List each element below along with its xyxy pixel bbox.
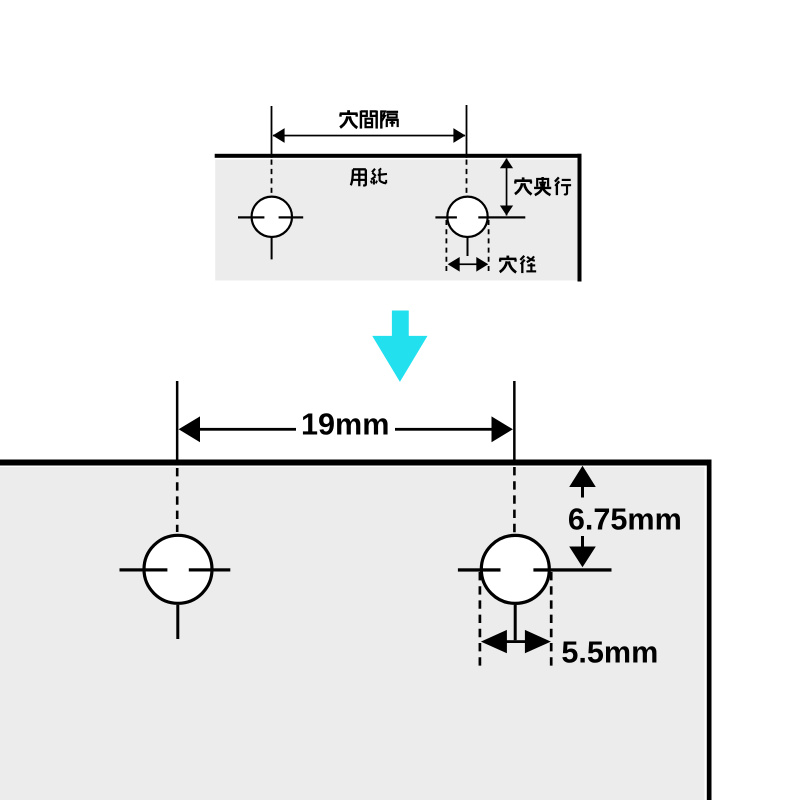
bottom diagram: paper right edge line (707, 460, 712, 800)
top diagram: paper sheet fill (215, 160, 577, 281)
top left hole: crosshair right arm (279, 216, 304, 218)
hole-depth bottom arrowhead (500, 206, 513, 216)
hole-diameter right arrowhead (476, 257, 488, 272)
label: ana-kei (hole diameter) (499, 256, 536, 274)
top diagram: hole-pitch left arrowhead (273, 128, 285, 143)
top right hole: center dashed line above (466, 160, 468, 197)
6.75mm top arrowhead (569, 466, 596, 487)
top right hole: center line below (467, 237, 469, 256)
top left hole: center line below (271, 237, 273, 259)
hole-depth top arrowhead (500, 158, 513, 168)
bottom right hole: right side dashed line (550, 572, 553, 666)
6.75mm bottom arrowhead (569, 547, 596, 568)
bottom left hole: center line below (176, 605, 179, 639)
bottom left hole: center dashed line above (176, 468, 179, 532)
top right hole: crosshair right arm (478, 216, 525, 218)
top diagram: hole-pitch dimension shaft (273, 135, 465, 137)
cyan zoom arrow (372, 311, 427, 382)
hole-diameter left arrowhead (448, 257, 460, 272)
svg-text:19mm: 19mm (301, 408, 389, 442)
label: ana-kankaku (hole spacing) (340, 110, 398, 128)
6.75mm dimension line upper segment (581, 487, 584, 498)
6.75mm dimension line lower segment (581, 536, 584, 547)
label: ana-okuyuki (hole depth) (515, 177, 572, 195)
top diagram: hole-pitch right arrowhead (453, 128, 465, 143)
top diagram: paper right edge line (578, 154, 582, 282)
bottom left hole: crosshair left arm (120, 568, 168, 571)
19mm right arrowhead (492, 416, 513, 442)
19mm dimension shaft left part (198, 428, 296, 431)
bottom right hole: crosshair left arm (458, 568, 501, 571)
hole-diameter dimension shaft (449, 263, 487, 265)
top diagram: right extension line (466, 105, 468, 158)
label: youshi (paper) (351, 168, 387, 186)
bottom left hole: crosshair right arm (189, 568, 231, 571)
top left hole: center dashed line above (271, 160, 273, 197)
bottom right hole: circle (481, 535, 549, 603)
top right hole: left side dashed line (445, 220, 447, 273)
bottom right hole: crosshair right arm (533, 568, 611, 571)
5.5mm right arrowhead (525, 630, 551, 653)
svg-text:6.75mm: 6.75mm (568, 503, 682, 537)
5.5mm dimension shaft (504, 640, 529, 643)
top right hole: crosshair left arm (435, 216, 457, 218)
bottom diagram: paper top edge line (0, 460, 712, 466)
bottom diagram: paper sheet fill (0, 467, 705, 800)
bottom right hole: center dashed line above (513, 467, 516, 533)
top right hole: circle (447, 197, 487, 237)
bottom left hole: circle (144, 535, 212, 603)
top diagram: paper top edge line (215, 154, 582, 158)
bottom right hole: center line below (514, 605, 517, 640)
svg-text:5.5mm: 5.5mm (561, 636, 658, 670)
bottom diagram: left extension line (176, 381, 179, 460)
top right hole: right side dashed line (488, 220, 490, 273)
bottom right hole: left side dashed line (479, 572, 482, 666)
top left hole: circle (252, 197, 292, 237)
top left hole: crosshair left arm (238, 216, 264, 218)
5.5mm left arrowhead (481, 630, 507, 653)
19mm left arrowhead (179, 416, 200, 442)
bottom diagram: right extension line (513, 381, 516, 460)
19mm dimension shaft right part (395, 428, 493, 431)
hole-depth dimension line (506, 159, 508, 216)
top diagram: left extension line (271, 106, 273, 158)
